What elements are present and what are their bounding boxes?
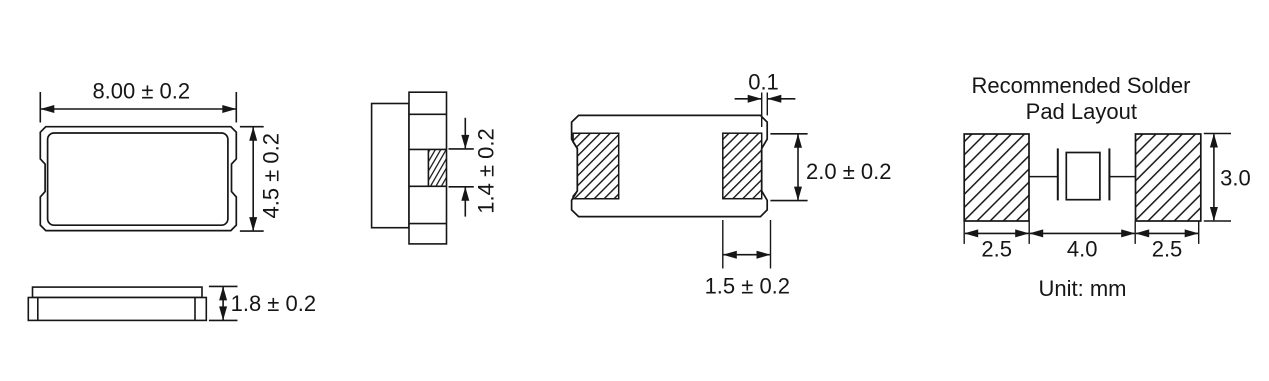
end view cap section line 4	[409, 223, 447, 225]
dimension 1.4 extension line bottom	[449, 186, 474, 188]
end view cap section line 3	[409, 185, 447, 187]
dimension 4.5 arrow line	[249, 127, 257, 231]
end view end-cap column	[409, 92, 447, 244]
layout left pad (hatched)	[964, 134, 1029, 221]
svg-text:3.0: 3.0	[1220, 165, 1251, 190]
bottom view right pad (hatched)	[723, 133, 762, 199]
dimension 3.0 extension line bottom	[1204, 220, 1231, 222]
svg-text:1.4 ± 0.2: 1.4 ± 0.2	[474, 128, 499, 213]
dimension 1.8 arrow line	[219, 286, 227, 320]
dimension 8.00 arrow line	[40, 105, 236, 113]
side view lid	[33, 287, 203, 297]
layout dim 2.5 left arrow line	[964, 229, 1029, 237]
dimension 2.0 extension line bottom	[770, 200, 807, 202]
svg-text:1.5 ± 0.2: 1.5 ± 0.2	[705, 274, 790, 299]
svg-text:4.0: 4.0	[1067, 237, 1098, 262]
svg-text:4.5 ± 0.2: 4.5 ± 0.2	[259, 133, 284, 218]
dimension 0.1 right arrow	[767, 95, 795, 103]
svg-text:0.1: 0.1	[748, 69, 779, 94]
dimension 4.5 extension line bottom	[240, 230, 264, 232]
layout dim 2.5 right arrow line	[1135, 229, 1199, 237]
side view body	[28, 298, 206, 321]
dimension 1.5 extension line left	[722, 220, 724, 269]
crystal symbol plate left	[1057, 148, 1059, 200]
dimension 1.5 extension line right	[770, 220, 772, 269]
layout dim 4.0 arrow line	[1029, 229, 1135, 237]
dimension 0.1 left arrow	[735, 95, 762, 103]
layout right pad (hatched)	[1136, 134, 1201, 221]
dimension 1.8 extension line top	[209, 285, 238, 287]
layout dim extension line 4	[1198, 221, 1200, 244]
end view body rectangle	[372, 104, 409, 228]
dimension 1.4 upper arrow	[461, 118, 469, 149]
svg-text:2.5: 2.5	[1152, 237, 1183, 262]
layout dim extension line 3	[1134, 221, 1136, 244]
dimension 1.4 lower arrow	[461, 187, 469, 217]
dimension 2.0 arrow line	[794, 134, 802, 201]
dimension 8.00 extension tick right	[235, 92, 237, 123]
dimension 3.0 arrow line	[1210, 134, 1218, 222]
side view terminal line right	[194, 298, 196, 321]
end view cap section line 2	[409, 148, 447, 150]
bottom view left pad (hatched)	[573, 133, 619, 199]
end view hatched castellation block	[428, 149, 446, 186]
svg-text:8.00 ± 0.2: 8.00 ± 0.2	[92, 78, 190, 103]
svg-text:2.0 ± 0.2: 2.0 ± 0.2	[806, 159, 891, 184]
side view terminal line left	[37, 298, 39, 321]
svg-text:Recommended Solder: Recommended Solder	[972, 73, 1191, 98]
dimension 1.8 extension line bottom	[209, 319, 238, 321]
dimension 0.1 extension line left	[761, 93, 763, 128]
top view inner lid outline	[48, 133, 228, 225]
dimension 1.4 extension line top	[449, 148, 474, 150]
top view package outline	[40, 127, 236, 231]
crystal symbol plate right	[1108, 148, 1110, 200]
dimension 3.0 extension line top	[1204, 133, 1231, 135]
svg-text:Pad Layout: Pad Layout	[1026, 99, 1137, 124]
dimension 4.5 extension line top	[240, 126, 264, 128]
crystal symbol wire right	[1109, 176, 1135, 178]
dimension 8.00 extension tick left	[39, 92, 41, 123]
crystal symbol body	[1066, 153, 1100, 200]
svg-text:1.8 ± 0.2: 1.8 ± 0.2	[231, 291, 316, 316]
end view cap section line 1	[409, 113, 447, 115]
crystal symbol wire left	[1029, 176, 1058, 178]
layout dim extension line 2	[1028, 221, 1030, 244]
dimension 1.5 arrow line	[723, 251, 771, 259]
svg-text:Unit: mm: Unit: mm	[1039, 276, 1127, 301]
dimension 2.0 extension line top	[770, 133, 807, 135]
dimension 0.1 extension line right	[766, 93, 768, 116]
layout dim extension line 1	[963, 221, 965, 244]
bottom view package outline	[572, 115, 768, 216]
svg-text:2.5: 2.5	[981, 237, 1012, 262]
